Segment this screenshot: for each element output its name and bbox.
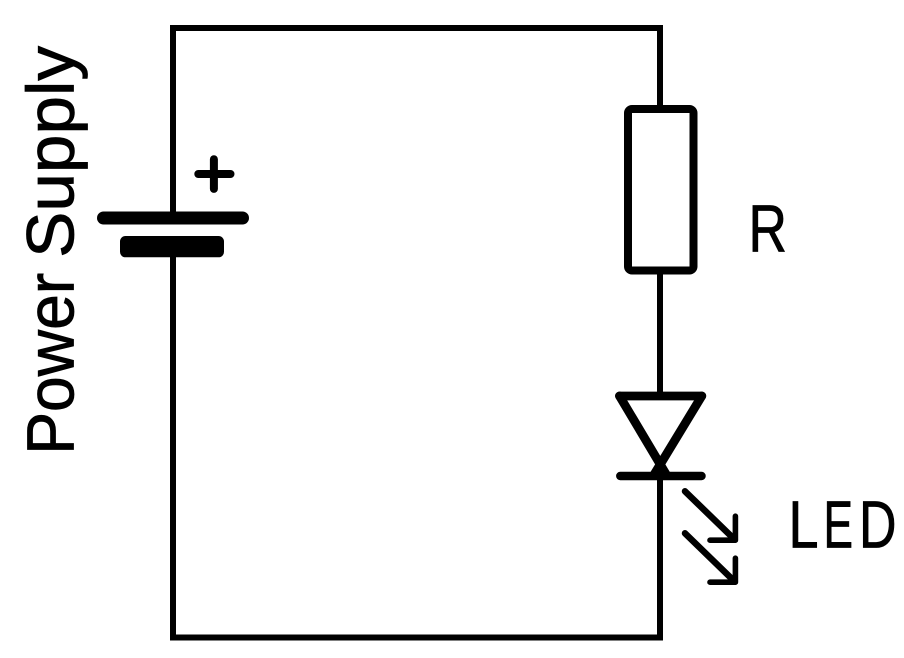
- battery BT1 positive plate: [97, 212, 249, 225]
- battery BT1 negative plate: [120, 236, 224, 257]
- svg-text:Power: Power: [14, 273, 89, 455]
- LED light arrow 2 shaft: [685, 533, 735, 581]
- LED D1 anode bar (triangle top): [620, 392, 702, 401]
- wire: top rail + right drop to resistor: [173, 28, 660, 212]
- battery plus sign: [198, 159, 230, 189]
- LED D1 triangle right side: [655, 396, 702, 474]
- LED light arrow 1 shaft: [685, 491, 735, 539]
- LED light arrow 2 head: [710, 558, 735, 582]
- LED D1 triangle left side: [620, 396, 666, 474]
- wire: resistor to LED: [657, 274, 663, 397]
- LED light arrow 1 head: [710, 516, 735, 540]
- wire: bottom rail from battery minus to LED cathode: [173, 257, 660, 638]
- svg-text:R: R: [749, 192, 788, 267]
- svg-text:E: E: [824, 488, 854, 563]
- LED D1 cathode bar: [620, 472, 701, 481]
- resistor R: [628, 109, 694, 271]
- svg-text:L: L: [789, 488, 819, 563]
- svg-text:D: D: [859, 488, 897, 563]
- svg-text:Supply: Supply: [14, 45, 89, 258]
